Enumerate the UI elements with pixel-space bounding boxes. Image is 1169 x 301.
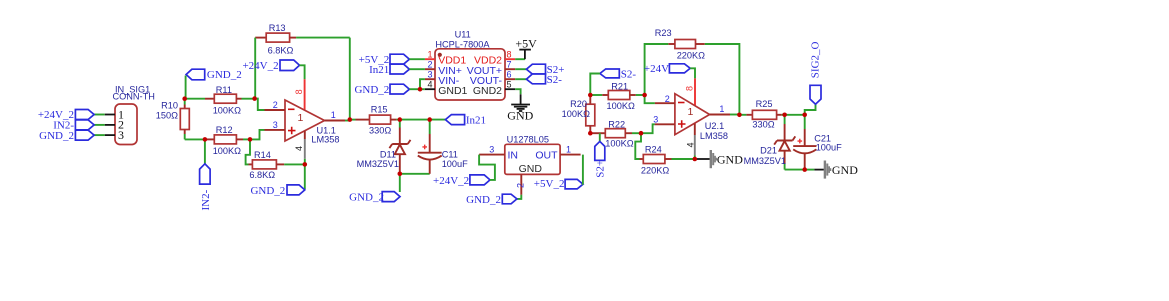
svg-text:1: 1: [331, 110, 336, 120]
svg-text:220KΩ: 220KΩ: [677, 51, 705, 61]
svg-text:3: 3: [118, 128, 124, 142]
svg-text:LM358: LM358: [311, 134, 339, 144]
svg-text:GND_2: GND_2: [466, 194, 501, 206]
svg-text:GND: GND: [717, 152, 743, 166]
svg-text:1: 1: [427, 50, 432, 60]
svg-text:4: 4: [294, 146, 304, 151]
svg-text:S2-: S2-: [547, 74, 563, 86]
svg-text:SIG2_O: SIG2_O: [810, 41, 822, 78]
svg-text:R15: R15: [371, 104, 388, 114]
svg-text:5: 5: [507, 80, 512, 90]
svg-text:1: 1: [566, 145, 571, 155]
svg-text:R14: R14: [254, 150, 271, 160]
svg-text:S2+: S2+: [594, 160, 606, 178]
svg-text:8: 8: [294, 89, 304, 94]
svg-text:GND_2: GND_2: [349, 192, 384, 204]
svg-text:R22: R22: [608, 120, 625, 130]
svg-text:R10: R10: [161, 101, 178, 111]
svg-text:GND1: GND1: [438, 85, 467, 97]
svg-text:4: 4: [686, 142, 696, 147]
svg-text:3: 3: [427, 70, 432, 80]
svg-text:R20: R20: [570, 99, 587, 109]
svg-text:+5V: +5V: [515, 37, 537, 51]
svg-text:U2.1: U2.1: [705, 121, 724, 131]
svg-text:GND: GND: [507, 109, 533, 123]
svg-text:IN: IN: [508, 149, 519, 161]
svg-text:+5V_2: +5V_2: [534, 178, 565, 190]
svg-text:+24V_2: +24V_2: [242, 60, 278, 72]
svg-text:GND: GND: [519, 163, 543, 175]
svg-text:2: 2: [665, 94, 670, 104]
svg-text:In21: In21: [369, 64, 389, 76]
svg-text:100KΩ: 100KΩ: [605, 138, 633, 148]
svg-text:1: 1: [298, 112, 304, 124]
svg-text:2: 2: [427, 60, 432, 70]
svg-text:R24: R24: [645, 144, 662, 154]
svg-text:2: 2: [516, 183, 526, 188]
svg-text:8: 8: [685, 86, 695, 91]
svg-text:GND_2: GND_2: [354, 84, 389, 96]
svg-text:3: 3: [653, 115, 658, 125]
svg-text:GND_2: GND_2: [250, 185, 285, 197]
svg-text:1: 1: [688, 106, 694, 118]
svg-text:150Ω: 150Ω: [156, 111, 178, 121]
svg-text:GND: GND: [832, 163, 858, 177]
svg-text:U11: U11: [455, 30, 471, 40]
svg-text:CONN-TH: CONN-TH: [113, 92, 155, 102]
svg-text:330Ω: 330Ω: [752, 119, 774, 129]
svg-text:MM3Z5V1: MM3Z5V1: [357, 159, 399, 169]
svg-text:C11: C11: [442, 149, 458, 159]
svg-text:100KΩ: 100KΩ: [562, 109, 590, 119]
svg-text:R23: R23: [655, 28, 672, 38]
svg-text:100KΩ: 100KΩ: [607, 101, 635, 111]
svg-text:U1278L05: U1278L05: [507, 135, 549, 145]
svg-text:6.8KΩ: 6.8KΩ: [268, 45, 294, 55]
svg-text:100uF: 100uF: [816, 143, 842, 153]
svg-text:100KΩ: 100KΩ: [213, 146, 241, 156]
svg-text:1: 1: [719, 104, 724, 114]
svg-text:S2-: S2-: [621, 68, 637, 80]
svg-text:+24V: +24V: [644, 63, 669, 75]
svg-text:2: 2: [273, 100, 278, 110]
svg-text:GND_2: GND_2: [207, 69, 242, 81]
svg-text:220KΩ: 220KΩ: [641, 165, 669, 175]
svg-text:6.8KΩ: 6.8KΩ: [249, 170, 275, 180]
svg-text:R12: R12: [216, 125, 233, 135]
svg-text:IN2-: IN2-: [200, 189, 212, 210]
svg-text:330Ω: 330Ω: [369, 126, 391, 136]
svg-text:4: 4: [427, 80, 432, 90]
svg-text:R11: R11: [216, 85, 232, 95]
svg-text:+24V_2: +24V_2: [433, 175, 469, 187]
svg-text:GND2: GND2: [473, 85, 502, 97]
svg-text:D21: D21: [760, 146, 777, 156]
svg-text:GND_2: GND_2: [39, 130, 74, 142]
svg-text:D11: D11: [380, 149, 396, 159]
svg-text:3: 3: [489, 145, 494, 155]
svg-text:3: 3: [273, 120, 278, 130]
svg-text:6: 6: [507, 70, 512, 80]
svg-text:R13: R13: [269, 23, 286, 33]
svg-text:LM358: LM358: [700, 131, 728, 141]
svg-text:100KΩ: 100KΩ: [213, 105, 241, 115]
svg-text:OUT: OUT: [535, 149, 558, 161]
svg-text:100uF: 100uF: [442, 159, 468, 169]
svg-text:R21: R21: [611, 81, 628, 91]
svg-text:R25: R25: [756, 99, 773, 109]
svg-text:MM3Z5V1: MM3Z5V1: [744, 156, 786, 166]
svg-text:8: 8: [507, 50, 512, 60]
svg-text:In21: In21: [466, 114, 486, 126]
svg-text:7: 7: [507, 60, 512, 70]
